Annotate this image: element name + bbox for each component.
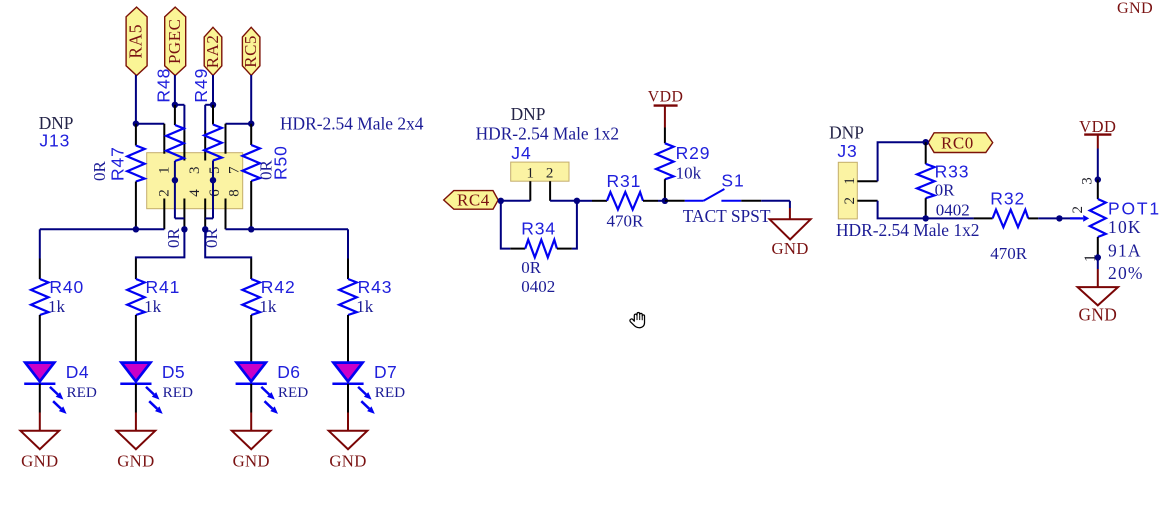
svg-text:J4: J4 xyxy=(511,143,531,163)
svg-text:2: 2 xyxy=(157,189,173,197)
svg-text:GND: GND xyxy=(1117,0,1153,17)
junction POT1 wiper node xyxy=(1056,215,1062,221)
J13 pin 7 lead xyxy=(225,124,227,154)
svg-text:RED: RED xyxy=(67,384,97,401)
svg-text:RED: RED xyxy=(163,384,193,401)
wire VDD to POT1 xyxy=(1097,149,1099,180)
wire D6 cathode xyxy=(250,384,252,431)
svg-text:D4: D4 xyxy=(66,362,89,382)
svg-text:10k: 10k xyxy=(676,164,702,183)
wire bus left xyxy=(40,228,165,230)
svg-text:RA5: RA5 xyxy=(126,24,146,59)
resistor R49 xyxy=(191,68,222,248)
svg-text:0R: 0R xyxy=(90,161,109,182)
svg-text:2: 2 xyxy=(546,165,554,181)
svg-text:R33: R33 xyxy=(935,162,970,182)
J4 pin number 2 xyxy=(546,165,554,181)
svg-text:GND: GND xyxy=(233,452,270,471)
wire RC4 to J4 xyxy=(499,200,530,202)
LED D6 xyxy=(236,362,309,414)
svg-text:VDD: VDD xyxy=(648,89,684,106)
svg-text:20%: 20% xyxy=(1108,263,1144,283)
wire RA2 to pin5 xyxy=(205,104,213,106)
resistor R43 xyxy=(339,277,392,364)
resistor R33 xyxy=(917,142,970,219)
resistor R42 xyxy=(242,277,295,364)
svg-text:R50: R50 xyxy=(271,145,291,180)
wire RC5 to pin7 xyxy=(226,123,252,125)
svg-text:3: 3 xyxy=(187,167,203,175)
svg-text:R47: R47 xyxy=(107,146,127,181)
junction R50 bus xyxy=(248,226,254,232)
svg-text:91A: 91A xyxy=(1108,241,1142,261)
svg-text:D7: D7 xyxy=(374,362,397,382)
svg-text:R41: R41 xyxy=(146,277,181,297)
resistor R40 xyxy=(31,277,84,364)
potentiometer POT1 xyxy=(1059,177,1161,283)
svg-text:PGEC: PGEC xyxy=(165,19,184,64)
J13 pin number 2 xyxy=(157,189,173,197)
wire RC5 vertical xyxy=(250,75,252,124)
ground GND D5 xyxy=(117,431,156,471)
svg-text:2: 2 xyxy=(842,197,858,205)
junction RA2 xyxy=(210,102,216,108)
svg-text:10K: 10K xyxy=(1108,217,1142,237)
J13 pin number 8 xyxy=(226,189,242,197)
resistor R50 xyxy=(242,124,290,230)
wire RA2 vertical xyxy=(212,75,214,105)
power VDD (middle) xyxy=(648,89,684,128)
resistor R47 xyxy=(90,124,145,230)
connector J4 body xyxy=(511,162,569,181)
svg-text:R29: R29 xyxy=(676,143,711,163)
svg-text:0R: 0R xyxy=(521,258,542,277)
svg-text:R31: R31 xyxy=(607,171,642,191)
junction R29 node xyxy=(662,198,668,204)
J13 pin 6 lead xyxy=(204,199,206,230)
svg-text:0R: 0R xyxy=(164,228,183,249)
svg-text:1: 1 xyxy=(842,177,858,185)
svg-text:R42: R42 xyxy=(261,277,296,297)
J13 pin 8 lead xyxy=(225,199,227,230)
svg-text:RED: RED xyxy=(278,384,308,401)
wire J3 pin2 to bus xyxy=(878,201,926,219)
wire PGEC to pin3 xyxy=(175,104,185,106)
connector J3 body xyxy=(838,162,857,219)
wire net3 run xyxy=(205,229,251,279)
J3 pin number 1 xyxy=(842,177,858,185)
svg-text:5: 5 xyxy=(207,167,223,175)
svg-text:D6: D6 xyxy=(277,362,300,382)
J13 pin 1 lead xyxy=(163,124,165,154)
text DNP (J3) xyxy=(829,123,864,143)
junction R33 bottom xyxy=(923,215,929,221)
port RC5 xyxy=(241,27,260,75)
J13 pin number 4 xyxy=(187,189,203,197)
ground GND (middle) xyxy=(770,219,811,258)
svg-text:0402: 0402 xyxy=(936,201,970,220)
port PGEC xyxy=(165,7,186,75)
svg-text:HDR-2.54 Male 1x2: HDR-2.54 Male 1x2 xyxy=(476,123,619,143)
svg-text:GND: GND xyxy=(1079,305,1118,325)
J13 pin 3 lead xyxy=(183,105,185,161)
svg-text:1k: 1k xyxy=(48,297,66,316)
text HDR-2.54 Male 1x2 (J3) xyxy=(836,220,979,240)
LED D5 xyxy=(120,362,193,414)
wire bus right xyxy=(226,228,349,230)
svg-text:0R: 0R xyxy=(935,181,956,200)
J13 pin number 1 xyxy=(157,167,173,175)
text HDR-2.54 Male 1x2 (J4) xyxy=(476,123,619,143)
svg-text:RC5: RC5 xyxy=(241,35,260,68)
svg-text:3: 3 xyxy=(1079,177,1095,185)
J4 pin number 1 xyxy=(526,165,534,181)
wire J4 pin2 to node xyxy=(550,200,577,202)
svg-text:1k: 1k xyxy=(356,297,374,316)
svg-text:HDR-2.54 Male 2x4: HDR-2.54 Male 2x4 xyxy=(280,114,424,134)
svg-text:DNP: DNP xyxy=(511,104,546,124)
ground GND D4 xyxy=(21,431,60,471)
wire S1 to GND xyxy=(761,201,790,219)
svg-text:R40: R40 xyxy=(49,277,84,297)
port RC4 xyxy=(444,191,499,210)
resistor R41 xyxy=(127,277,180,364)
designator J4 xyxy=(511,143,531,163)
J13 pin 4 lead xyxy=(183,199,185,230)
junction RC5 xyxy=(248,121,254,127)
svg-text:GND: GND xyxy=(21,452,58,471)
svg-text:4: 4 xyxy=(187,189,203,197)
designator J13 xyxy=(39,130,70,150)
port RA2 xyxy=(203,27,222,75)
svg-text:S1: S1 xyxy=(721,171,744,191)
svg-text:RA2: RA2 xyxy=(203,35,222,69)
svg-text:J3: J3 xyxy=(837,141,857,161)
svg-text:1: 1 xyxy=(526,165,534,181)
junction pin6 bus xyxy=(202,226,208,232)
junction PGEC xyxy=(172,102,178,108)
J13 pin 5 lead xyxy=(204,105,206,161)
port RA5 xyxy=(126,7,148,75)
ground GND D7 xyxy=(329,431,368,471)
J13 pin 2 lead xyxy=(163,199,165,230)
LED D4 xyxy=(24,362,97,414)
junction R47 bus xyxy=(133,226,139,232)
svg-text:RC4: RC4 xyxy=(457,191,490,210)
switch S1 xyxy=(665,171,771,227)
junction R48 in J13 xyxy=(172,177,178,183)
svg-text:GND: GND xyxy=(771,239,808,258)
text DNP (J13) xyxy=(39,113,74,133)
J13 pin number 3 xyxy=(187,167,203,175)
junction POT1 pin3 xyxy=(1095,176,1101,182)
wire RA5 vertical xyxy=(135,75,137,124)
junction RA5 xyxy=(133,121,139,127)
wire POT1 to GND xyxy=(1097,258,1099,288)
svg-text:D5: D5 xyxy=(162,362,185,382)
wire R33 to R32 xyxy=(926,217,974,219)
J13 pin number 7 xyxy=(226,166,242,174)
svg-text:1: 1 xyxy=(157,167,173,175)
resistor R29 xyxy=(656,128,710,201)
wire net4 down xyxy=(347,229,349,279)
cursor hand icon xyxy=(630,313,645,328)
J4 pin 2 lead xyxy=(549,181,551,201)
wire PGEC vertical xyxy=(174,75,176,105)
power VDD (right) xyxy=(1079,117,1116,149)
svg-text:1k: 1k xyxy=(259,297,277,316)
svg-text:DNP: DNP xyxy=(829,123,864,143)
svg-text:7: 7 xyxy=(226,166,242,174)
svg-text:8: 8 xyxy=(226,189,242,197)
svg-text:R34: R34 xyxy=(521,219,556,239)
ground GND D6 xyxy=(232,431,271,471)
J3 pin number 2 xyxy=(842,197,858,205)
svg-text:HDR-2.54 Male 1x2: HDR-2.54 Male 1x2 xyxy=(836,220,979,240)
J13 pin number 6 xyxy=(207,189,223,197)
svg-text:GND: GND xyxy=(117,452,154,471)
text DNP (J4) xyxy=(511,104,546,124)
junction R31 node xyxy=(574,198,580,204)
svg-text:POT1: POT1 xyxy=(1108,199,1161,219)
svg-text:R43: R43 xyxy=(358,277,393,297)
designator J3 xyxy=(837,141,857,161)
svg-text:GND: GND xyxy=(329,452,366,471)
J3 pin 1 lead xyxy=(857,180,877,182)
svg-text:470R: 470R xyxy=(607,212,645,231)
LED D7 xyxy=(332,362,405,414)
port RC0 xyxy=(928,133,993,153)
text GND (top right) xyxy=(1117,0,1153,17)
svg-text:470R: 470R xyxy=(990,244,1028,263)
ground GND (right) xyxy=(1078,287,1118,324)
connector J13 body xyxy=(147,153,243,209)
svg-text:RED: RED xyxy=(375,384,405,401)
svg-text:J13: J13 xyxy=(39,130,70,150)
wire R48 jog xyxy=(175,217,185,219)
J4 pin 1 lead xyxy=(529,181,531,201)
svg-text:R49: R49 xyxy=(191,68,211,103)
svg-text:R32: R32 xyxy=(990,188,1025,208)
wire R49 jog xyxy=(205,217,213,219)
svg-text:VDD: VDD xyxy=(1079,117,1116,136)
wire D4 cathode xyxy=(39,384,41,431)
wire net2 run xyxy=(136,229,185,279)
junction R49 in J13 xyxy=(210,177,216,183)
svg-text:1k: 1k xyxy=(144,297,162,316)
wire D7 cathode xyxy=(347,384,349,431)
text HDR-2.54 Male 2x4 xyxy=(280,114,424,134)
junction RC4 node xyxy=(498,198,504,204)
resistor R48 xyxy=(154,68,184,248)
junction pin4 bus xyxy=(181,226,187,232)
svg-text:6: 6 xyxy=(207,189,223,197)
J13 pin number 5 xyxy=(207,167,223,175)
resistor R31 xyxy=(577,171,665,231)
junction POT1 pin1 xyxy=(1095,254,1101,260)
wire RA5 to pin1 xyxy=(136,123,164,125)
svg-text:R48: R48 xyxy=(154,68,174,103)
resistor R32 xyxy=(974,188,1060,263)
wire R34 branch xyxy=(501,201,577,249)
svg-text:0402: 0402 xyxy=(521,277,555,296)
svg-text:RC0: RC0 xyxy=(941,133,974,152)
svg-text:TACT SPST: TACT SPST xyxy=(683,206,771,226)
wire J3 pin1 to RC0 xyxy=(878,142,926,181)
resistor R34 xyxy=(510,219,572,297)
junction RC0 top xyxy=(923,139,929,145)
wire D5 cathode xyxy=(135,384,137,431)
wire net1 down xyxy=(39,229,41,279)
J3 pin 2 lead xyxy=(857,200,877,202)
svg-text:2: 2 xyxy=(1070,206,1086,214)
